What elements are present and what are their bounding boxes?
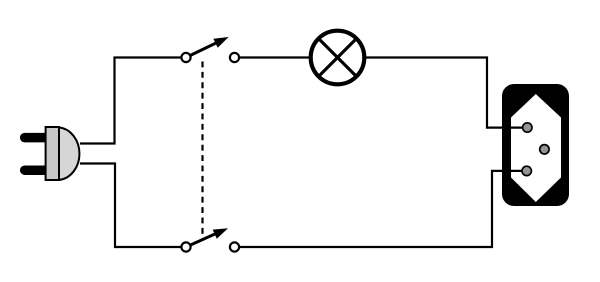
switch S1b right terminal: [230, 242, 239, 251]
wire bottom rail from switch to socket: [239, 171, 502, 247]
socket pin lower: [522, 166, 531, 175]
wire stub to socket lower pin: [502, 170, 527, 172]
plug collar: [46, 127, 59, 180]
wire stub to socket upper pin: [502, 126, 527, 128]
socket pin upper: [523, 123, 532, 132]
socket pin middle: [540, 145, 549, 154]
socket face hexagon: [511, 94, 561, 202]
wire top rail from switch to lamp and socket: [239, 58, 502, 128]
plug prong upper: [25, 133, 48, 143]
switch S1b lever with arrow: [190, 228, 228, 245]
wire bottom rail from plug to bottom-left switch terminal: [80, 164, 182, 248]
dashed mechanical link between switch poles: [201, 62, 203, 236]
plug dome body: [59, 127, 79, 180]
switch S1a lever with arrow: [190, 37, 229, 56]
plug prong lower: [25, 165, 48, 175]
socket body: [502, 84, 569, 206]
switch S1b left terminal: [181, 242, 190, 251]
lamp L1: [311, 31, 365, 85]
wire top rail from plug to left switch terminal: [80, 58, 182, 144]
switch S1a right terminal: [230, 53, 239, 62]
switch S1a left terminal: [181, 53, 190, 62]
